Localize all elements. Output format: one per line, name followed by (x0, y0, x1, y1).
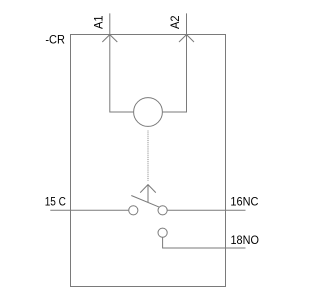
svg-text:16NC: 16NC (230, 194, 258, 208)
svg-text:A1: A1 (92, 15, 106, 29)
svg-text:15 C: 15 C (45, 195, 66, 209)
svg-text:18NO: 18NO (231, 233, 259, 247)
svg-text:A2: A2 (168, 15, 182, 29)
svg-text:-CR: -CR (45, 33, 65, 47)
